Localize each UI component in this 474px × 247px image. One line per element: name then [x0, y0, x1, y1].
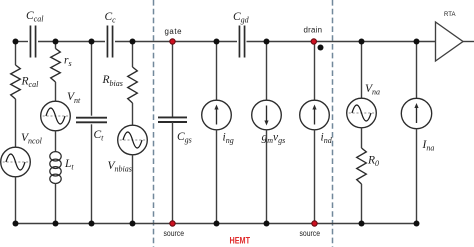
op-amp RTA amplifier — [436, 22, 464, 61]
voltage source V_ncol — [1, 147, 31, 177]
svg-text:drain: drain — [304, 26, 323, 35]
junction top rail x=216 — [214, 39, 220, 45]
current source i_nd — [300, 100, 330, 130]
current source I_na — [401, 98, 431, 128]
junction top rail x=266 — [264, 39, 270, 45]
wire top rail: left node to C_cal — [16, 41, 29, 43]
svg-text:source: source — [300, 229, 321, 238]
wire top rail: C_cal to C_c — [38, 41, 105, 43]
stray junction dot below drain — [318, 45, 324, 51]
current source g_m*v_gs — [252, 100, 282, 130]
wire bottom source rail — [16, 223, 418, 225]
node gate (red) — [170, 39, 175, 44]
dashed boundary line (drain side) — [332, 0, 334, 247]
capacitor C_c — [107, 26, 112, 58]
junction top rail x=91 — [89, 39, 95, 45]
junction bottom rail x=216 — [214, 221, 220, 227]
resistor R_cal — [11, 65, 21, 99]
resistor r_s — [51, 49, 61, 83]
wire V_na branch: top — [361, 42, 363, 99]
junction top rail x=361 — [359, 39, 365, 45]
junction bottom rail x=417 — [414, 221, 420, 227]
junction bottom rail x=16 — [13, 221, 19, 227]
wire i_nd branch: bottom — [314, 130, 316, 224]
wire: R_bias to V_nbias — [132, 103, 134, 126]
wire I_na branch: top — [416, 42, 418, 99]
wire: r_s to V_nt — [55, 82, 57, 102]
junction top rail x=416 — [414, 39, 420, 45]
junction bottom rail x=266 — [264, 221, 270, 227]
voltage source V_nbias — [118, 125, 148, 155]
wire i_ng branch: top — [216, 42, 218, 101]
wire top rail: C_gd to RTA amplifier (drain net) — [247, 41, 436, 43]
junction bottom rail x=55 — [53, 221, 59, 227]
svg-text:HEMT: HEMT — [230, 236, 251, 246]
wire i_nd branch: top — [314, 42, 316, 101]
node source left (red) — [170, 221, 175, 226]
wire left branch: node to R_cal — [15, 42, 17, 66]
wire R_bias branch: top — [132, 42, 134, 68]
svg-text:source: source — [164, 229, 185, 238]
current source i_ng — [202, 100, 232, 130]
junction bottom rail x=362 — [359, 221, 365, 227]
wire g_m*v_gs branch: bottom — [266, 130, 268, 224]
wire: L_t to rail — [55, 184, 57, 224]
wire r_s branch: top stub — [55, 42, 57, 49]
svg-text:gate: gate — [165, 27, 183, 36]
resistor R_0 — [357, 148, 367, 184]
wire gate branch: C_gs to source rail — [172, 122, 174, 224]
wire I_na branch: bottom — [416, 129, 418, 224]
junction bottom rail x=132 — [130, 221, 136, 227]
junction top rail x=55 — [53, 39, 59, 45]
wire g_m*v_gs branch: top — [266, 42, 268, 101]
voltage source V_na — [347, 98, 377, 128]
capacitor C_t — [76, 118, 107, 123]
inductor L_t — [50, 152, 61, 184]
wire left branch: R_cal to V_ncol — [15, 99, 17, 148]
wire: V_na to R_0 — [361, 128, 363, 148]
wire C_t branch: top — [91, 42, 93, 116]
capacitor C_gd — [239, 26, 244, 58]
junction top rail x=16 — [13, 39, 19, 45]
wire: V_nt to L_t — [55, 131, 57, 152]
wire left branch: V_ncol to rail — [15, 177, 17, 224]
wire top rail: C_c to C_gd (gate net) — [115, 41, 237, 43]
resistor R_bias — [128, 67, 138, 103]
wire C_t branch: bottom — [91, 124, 93, 223]
junction bottom rail x=91 — [89, 221, 95, 227]
junction top rail x=132 — [130, 39, 136, 45]
wire: V_nbias to rail — [132, 155, 134, 224]
node drain (red) — [311, 39, 316, 44]
wire i_ng branch: bottom — [216, 130, 218, 224]
capacitor C_cal — [30, 26, 35, 58]
dashed boundary line (gate side) — [153, 0, 155, 247]
wire RTA output — [463, 41, 474, 43]
wire: R_0 to rail — [361, 184, 363, 224]
svg-text:RTA: RTA — [444, 11, 456, 18]
wire gate branch: gate node to C_gs — [172, 42, 174, 118]
capacitor C_gs — [158, 117, 187, 122]
voltage source V_nt — [41, 101, 71, 131]
node source right (red) — [312, 221, 317, 226]
